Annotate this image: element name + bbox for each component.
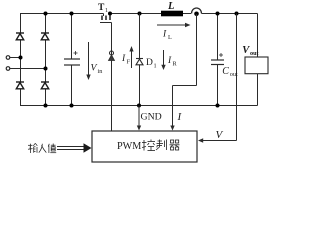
node terminal2-column junction xyxy=(44,67,48,71)
char 控 xyxy=(142,140,155,151)
svg-text:I: I xyxy=(177,111,183,123)
svg-text:1: 1 xyxy=(105,8,108,14)
diode VD1 top-left of bridge xyxy=(16,33,24,40)
label Vout xyxy=(242,45,259,57)
wire V feedback left with arrow into PWM xyxy=(198,138,237,142)
svg-text:F: F xyxy=(127,59,131,66)
node bridge right column top xyxy=(44,12,48,16)
svg-text:in: in xyxy=(98,68,103,75)
diode VD2 top-right of bridge xyxy=(41,33,49,40)
transistor T1 MOSFET xyxy=(100,14,112,23)
arrow GND into PWM controller xyxy=(137,106,141,131)
svg-text:out: out xyxy=(230,71,238,78)
arrow IR current xyxy=(161,50,165,70)
diode VD4 bottom-right of bridge xyxy=(41,82,49,89)
label Cout xyxy=(222,66,238,78)
node T1 source on rail xyxy=(108,12,112,16)
node D1 top junction xyxy=(138,12,142,16)
wire top rail left section xyxy=(20,13,104,15)
wire current sense from node after L down xyxy=(196,14,198,86)
capacitor Cout leads xyxy=(217,14,219,61)
svg-text:V: V xyxy=(216,129,224,141)
node after L under hump xyxy=(194,12,199,17)
svg-text:L: L xyxy=(168,34,172,41)
node Cin bottom xyxy=(70,104,74,108)
capacitor Cin plates xyxy=(64,59,80,65)
char 器 xyxy=(170,140,180,150)
gate drive marker (circle and arrowhead) xyxy=(109,51,115,61)
svg-text:R: R xyxy=(173,61,178,68)
label 控制器 (PWM controller chinese) drawn strokes xyxy=(142,140,180,151)
svg-text:C: C xyxy=(222,66,229,77)
wire current sense step left xyxy=(173,85,197,87)
arrow IF freewheel current xyxy=(129,46,133,68)
label Vin xyxy=(91,63,103,76)
AC input terminal 1 xyxy=(6,56,10,60)
svg-text:out: out xyxy=(250,50,260,57)
wire top rail right section xyxy=(202,13,258,15)
capacitor Cin polarity plus xyxy=(74,51,78,55)
svg-text:D: D xyxy=(146,58,153,68)
label IL xyxy=(162,30,172,41)
label IF xyxy=(121,54,131,66)
arrow Vin voltage xyxy=(86,42,90,80)
node D1 bottom / GND tap xyxy=(137,104,141,108)
diode D1 leads xyxy=(139,14,141,59)
wire V feedback down xyxy=(236,14,238,141)
PWM controller box U1 xyxy=(92,131,197,162)
capacitor Cout plates xyxy=(211,60,224,65)
arrow IL inductor current xyxy=(157,23,191,27)
arrow input setpoint double line xyxy=(57,143,92,153)
diode D1 xyxy=(136,59,143,65)
wire hump over node after L xyxy=(192,8,202,14)
svg-text:I: I xyxy=(162,30,167,40)
wire T1 gate down to PWM controller xyxy=(111,23,113,132)
svg-text:T: T xyxy=(98,3,105,13)
inductor L (solid bar) xyxy=(161,11,183,17)
node Cin top xyxy=(70,12,74,16)
wire terminal 1 to left column xyxy=(10,57,21,59)
char 制 xyxy=(156,140,167,151)
char 值 xyxy=(48,144,56,154)
wire load bottom lead xyxy=(257,74,259,106)
wire bridge right column xyxy=(45,14,47,34)
wire top rail mid section (T1 to D1 node to L) xyxy=(110,13,161,15)
label IR xyxy=(167,56,178,68)
AC input terminal 2 xyxy=(6,67,10,71)
wire current sense down to PWM with arrow I xyxy=(170,86,174,131)
node V feedback top xyxy=(235,12,239,16)
wire bottom rail xyxy=(20,105,258,107)
wire bridge left column xyxy=(20,14,22,34)
char 输 xyxy=(28,143,37,153)
label T1 xyxy=(98,3,108,14)
svg-text:L: L xyxy=(167,1,174,12)
label D1 xyxy=(146,58,157,70)
wire right corner down to load xyxy=(257,14,259,58)
wire terminal 2 to right column xyxy=(10,68,46,70)
node terminal1-column junction xyxy=(19,56,23,60)
label 输入值 (input value chinese) drawn strokes xyxy=(28,143,56,153)
load resistor box xyxy=(245,57,268,74)
svg-text:I: I xyxy=(121,54,126,64)
diode VD3 bottom-left of bridge xyxy=(16,82,24,89)
svg-text:1: 1 xyxy=(154,63,157,70)
node bridge right column bottom xyxy=(44,104,48,108)
char 入 xyxy=(39,144,47,153)
svg-text:V: V xyxy=(91,63,98,74)
node Cout top xyxy=(216,12,220,16)
svg-text:PWM: PWM xyxy=(117,141,141,152)
capacitor Cout polarity plus xyxy=(219,53,223,57)
node Cout bottom xyxy=(216,104,220,108)
svg-text:GND: GND xyxy=(141,112,162,123)
wire top rail L to hump xyxy=(183,13,191,15)
capacitor Cin leads xyxy=(71,14,73,60)
svg-text:I: I xyxy=(167,56,172,66)
